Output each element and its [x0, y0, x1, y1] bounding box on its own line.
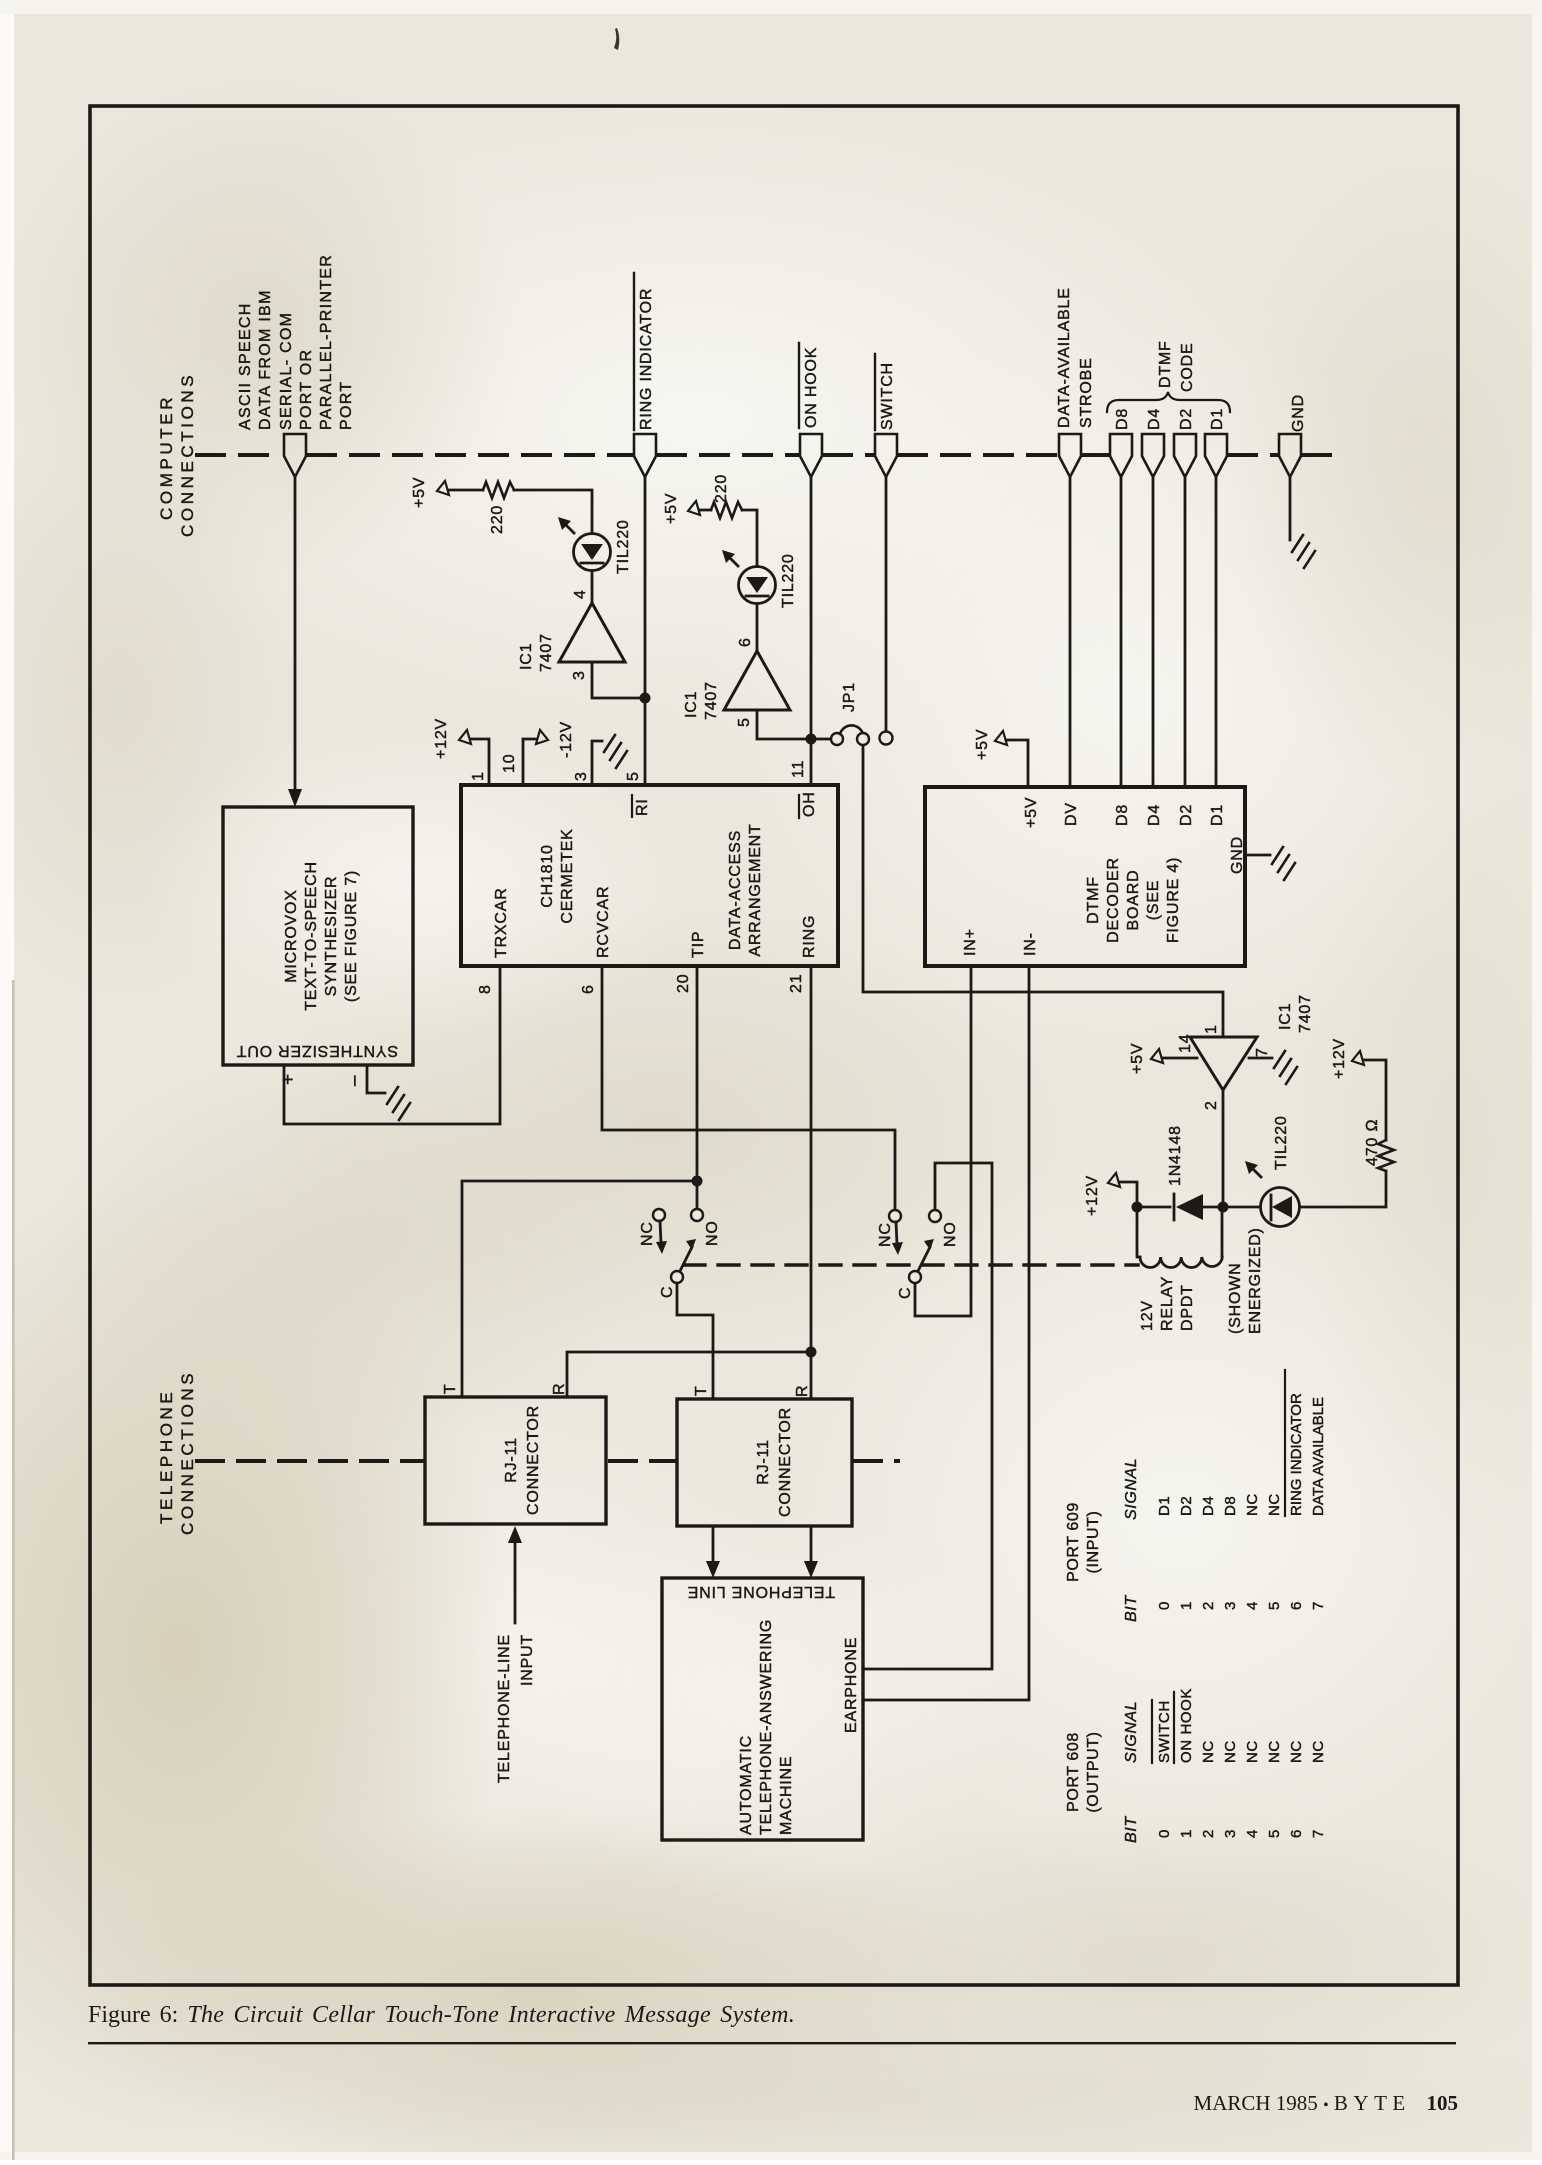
- svg-text:PORT 609: PORT 609: [1065, 1502, 1082, 1582]
- jumper pad on SWITCH net: [880, 732, 893, 745]
- contact NC: [653, 1209, 665, 1221]
- wire: SWITCH net: [885, 477, 888, 731]
- block: automatic telephone-answering machine: [662, 1578, 863, 1840]
- wire D4: [1152, 477, 1155, 787]
- svg-text:12V: 12V: [1139, 1300, 1156, 1331]
- wire buffer input to RI net: [592, 662, 639, 698]
- wire TIP to switch1 NO and RJ11-1 T: [696, 966, 699, 1208]
- svg-text:DTMF: DTMF: [1085, 876, 1102, 924]
- svg-text:5: 5: [1266, 1829, 1283, 1838]
- pole C with lever: [909, 1271, 921, 1283]
- svg-text:220: 220: [489, 505, 506, 534]
- svg-text:8: 8: [477, 984, 494, 994]
- svg-text:T: T: [442, 1383, 459, 1394]
- svg-text:NC: NC: [1244, 1493, 1261, 1516]
- svg-text:CONNECTOR: CONNECTOR: [777, 1407, 794, 1517]
- svg-text:MICROVOX: MICROVOX: [283, 889, 300, 983]
- svg-text:PARALLEL-PRINTER: PARALLEL-PRINTER: [318, 254, 335, 430]
- wire: ASCII connector to synthesizer: [294, 477, 297, 790]
- svg-text:PORT 608: PORT 608: [1065, 1732, 1082, 1812]
- svg-text:FIGURE 4): FIGURE 4): [1165, 857, 1182, 943]
- wire: [756, 604, 759, 651]
- svg-text:C: C: [897, 1287, 914, 1299]
- svg-text:–: –: [344, 1075, 365, 1086]
- svg-text:+12V: +12V: [1084, 1175, 1101, 1216]
- node: D4 connector: [1142, 434, 1164, 477]
- svg-text:D2: D2: [1178, 804, 1195, 826]
- jumper JP1: [817, 725, 869, 745]
- svg-text:OH: OH: [801, 791, 818, 817]
- svg-text:NC: NC: [877, 1222, 894, 1247]
- svg-text:4: 4: [572, 589, 589, 599]
- svg-text:2: 2: [1203, 1100, 1220, 1110]
- svg-text:SIGNAL: SIGNAL: [1123, 1458, 1140, 1520]
- mechanical link dashed line: [684, 1263, 1138, 1266]
- svg-text:3: 3: [571, 670, 588, 680]
- wire IN+ to switch2 common: [915, 966, 971, 1316]
- pin 5 label: [625, 771, 642, 781]
- power +5V: [663, 493, 680, 524]
- node: D8 connector: [1110, 434, 1132, 477]
- synthesizer + output wire to TRXCAR pin 8: [278, 1074, 299, 1085]
- svg-text:IN+: IN+: [962, 928, 979, 956]
- wire: [1137, 1206, 1170, 1209]
- wire RING to RJ11 connectors: [810, 966, 813, 1399]
- svg-text:D4: D4: [1146, 804, 1163, 826]
- rule: [88, 2042, 1456, 2044]
- wire: DV net: [1069, 477, 1072, 787]
- svg-text:JP1: JP1: [841, 682, 858, 712]
- LED TIL220 (data available): [1245, 1161, 1300, 1227]
- synthesizer - output to ground: [344, 1075, 365, 1086]
- label GND: [1290, 394, 1307, 432]
- svg-text:7407: 7407: [538, 633, 555, 672]
- svg-text:T: T: [693, 1385, 710, 1396]
- svg-text:ASCII SPEECH: ASCII SPEECH: [237, 302, 254, 430]
- svg-text:SIGNAL: SIGNAL: [1123, 1701, 1140, 1763]
- ground: [387, 1087, 410, 1120]
- svg-text:(INPUT): (INPUT): [1085, 1511, 1102, 1574]
- label TELEPHONE CONNECTIONS: [157, 1370, 197, 1535]
- svg-text:NC: NC: [639, 1221, 656, 1246]
- svg-text:220: 220: [713, 474, 730, 503]
- svg-text:NC: NC: [1266, 1740, 1283, 1763]
- svg-text:SERIAL- COM: SERIAL- COM: [278, 312, 295, 430]
- svg-text:3: 3: [573, 771, 590, 781]
- ground: [1292, 535, 1315, 568]
- svg-text:+: +: [278, 1074, 299, 1085]
- wire: OH net: [810, 477, 813, 785]
- svg-text:1: 1: [1178, 1829, 1195, 1838]
- wire: [591, 571, 594, 603]
- svg-text:5: 5: [1266, 1601, 1283, 1610]
- svg-text:NC: NC: [1266, 1493, 1283, 1516]
- resistor R2 220: [711, 502, 742, 518]
- svg-text:RI: RI: [634, 798, 651, 816]
- wire: [700, 509, 711, 512]
- wire: RI net: [644, 477, 647, 785]
- svg-text:6: 6: [1288, 1601, 1305, 1610]
- svg-text:C: C: [659, 1286, 676, 1298]
- svg-text:+5V: +5V: [411, 477, 428, 508]
- svg-text:(SEE FIGURE 7): (SEE FIGURE 7): [343, 870, 360, 1002]
- svg-text:BIT: BIT: [1123, 1595, 1140, 1622]
- label ON HOOK: [803, 347, 820, 428]
- svg-text:BIT: BIT: [1123, 1816, 1140, 1843]
- svg-text:RCVCAR: RCVCAR: [595, 886, 612, 958]
- wire D1: [1215, 477, 1218, 787]
- svg-text:PORT: PORT: [338, 381, 355, 430]
- svg-text:3: 3: [1222, 1601, 1239, 1610]
- label ASCII SPEECH DATA: [237, 254, 355, 430]
- svg-text:ON HOOK: ON HOOK: [1178, 1688, 1195, 1763]
- pin 3 ground: [573, 771, 590, 781]
- svg-text:1: 1: [1203, 1024, 1220, 1034]
- svg-text:+12V: +12V: [433, 718, 450, 759]
- svg-text:+5V: +5V: [1023, 797, 1040, 828]
- node: RING INDICATOR connector: [634, 434, 656, 477]
- block: RJ-11 connector (line): [425, 1397, 606, 1524]
- resistor R1 220: [483, 482, 514, 498]
- svg-text:ON HOOK: ON HOOK: [803, 347, 820, 428]
- wire: [1223, 1206, 1259, 1209]
- label SWITCH: [879, 362, 896, 430]
- power +5V: [411, 477, 428, 508]
- svg-text:CONNECTIONS: CONNECTIONS: [178, 1370, 197, 1535]
- pin 21 label: [788, 974, 805, 993]
- svg-text:TELEPHONE LINE: TELEPHONE LINE: [687, 1583, 835, 1600]
- svg-text:6: 6: [580, 984, 597, 994]
- svg-text:4: 4: [1244, 1601, 1261, 1610]
- telephone-line input arrow: [514, 1540, 517, 1623]
- computer-connections dashed line: [197, 453, 1341, 457]
- node: SWITCH connector: [875, 434, 897, 477]
- svg-text:2: 2: [1200, 1829, 1217, 1838]
- block: RJ-11 connector (answering machine): [677, 1399, 852, 1526]
- svg-text:ARRANGEMENT: ARRANGEMENT: [747, 823, 764, 956]
- ground: [1274, 1051, 1297, 1084]
- svg-text:21: 21: [788, 974, 805, 993]
- pole C with lever: [671, 1271, 683, 1283]
- svg-text:4: 4: [1244, 1829, 1261, 1838]
- svg-text:5: 5: [736, 717, 753, 727]
- svg-text:6: 6: [737, 637, 754, 647]
- pin 6 label: [580, 984, 597, 994]
- label D8: [1114, 408, 1131, 430]
- wire D8: [1120, 477, 1123, 787]
- svg-text:NC: NC: [1244, 1740, 1261, 1763]
- svg-text:TIL220: TIL220: [615, 519, 632, 574]
- wire GND to chassis: [1289, 477, 1292, 540]
- wire IN- to answering machine earphone: [863, 966, 1029, 1700]
- block: CH1810 data-access arrangement: [461, 785, 838, 966]
- svg-text:2: 2: [1200, 1601, 1217, 1610]
- svg-text:STROBE: STROBE: [1078, 357, 1095, 428]
- svg-text:RELAY: RELAY: [1159, 1276, 1176, 1331]
- label DATA-AVAILABLE STROBE: [1056, 287, 1095, 428]
- wire D2: [1184, 477, 1187, 787]
- svg-text:Figure 6: The Circuit Cellar T: Figure 6: The Circuit Cellar Touch-Tone …: [88, 2002, 795, 2028]
- wire GND of DTMF to chassis: [1245, 854, 1270, 857]
- svg-text:(SEE: (SEE: [1145, 880, 1162, 921]
- pin 10 -12V: [501, 721, 575, 773]
- svg-text:RING: RING: [801, 915, 818, 958]
- wire switch2 NO to answering machine earphone: [863, 1163, 992, 1669]
- node: ON HOOK connector: [800, 434, 822, 477]
- svg-text:GND: GND: [1229, 836, 1246, 874]
- svg-text:DECODER: DECODER: [1105, 857, 1122, 943]
- svg-text:SWITCH: SWITCH: [1156, 1700, 1173, 1763]
- diode 1N4148: [1174, 1194, 1223, 1220]
- wire: [742, 510, 757, 566]
- label D2: [1178, 408, 1195, 430]
- svg-text:-12V: -12V: [558, 721, 575, 758]
- svg-text:CERMETEK: CERMETEK: [559, 828, 576, 923]
- LED TIL220 (ring): [558, 517, 611, 571]
- svg-text:5: 5: [625, 771, 642, 781]
- junction: buffer input on RI net: [640, 693, 651, 704]
- power +12V: [1364, 1060, 1386, 1140]
- LED TIL220 (on hook): [722, 550, 776, 604]
- svg-text:CODE: CODE: [1179, 343, 1196, 392]
- svg-text:10: 10: [501, 754, 518, 773]
- svg-text:R: R: [551, 1383, 568, 1395]
- node: DATA-AVAILABLE STROBE connector: [1059, 434, 1081, 477]
- svg-text:6: 6: [1288, 1829, 1305, 1838]
- contact NO: [929, 1210, 941, 1222]
- power +5V into DTMF: [974, 729, 991, 760]
- svg-text:DV: DV: [1063, 802, 1080, 826]
- svg-text:BOARD: BOARD: [1125, 870, 1142, 931]
- svg-text:MACHINE: MACHINE: [778, 1756, 795, 1835]
- svg-text:7: 7: [1254, 1047, 1271, 1057]
- svg-text:NC: NC: [1200, 1740, 1217, 1763]
- block: Microvox text-to-speech synthesizer: [223, 807, 413, 1065]
- svg-text:TIL220: TIL220: [780, 553, 797, 608]
- svg-text:DATA-ACCESS: DATA-ACCESS: [727, 830, 744, 950]
- pin 11 label: [790, 760, 807, 778]
- svg-text:D1: D1: [1156, 1496, 1173, 1516]
- svg-text:TIP: TIP: [690, 931, 707, 958]
- junction: TIP tee: [692, 1176, 703, 1187]
- wire: [1300, 1171, 1386, 1207]
- svg-text:ENERGIZED): ENERGIZED): [1247, 1227, 1264, 1334]
- ground: [1272, 847, 1295, 880]
- power +5V pin 14: [1129, 1043, 1146, 1074]
- svg-text:D1: D1: [1209, 408, 1226, 430]
- node: ASCII speech data connector: [284, 434, 306, 477]
- svg-text:+12V: +12V: [1331, 1038, 1348, 1079]
- svg-text:D8: D8: [1114, 408, 1131, 430]
- svg-text:NO: NO: [704, 1220, 721, 1246]
- svg-text:CONNECTOR: CONNECTOR: [525, 1405, 542, 1515]
- caption: Figure 6: [614, 28, 619, 50]
- svg-text:D2: D2: [1178, 408, 1195, 430]
- svg-text:SYNTHESIZER OUT: SYNTHESIZER OUT: [236, 1042, 398, 1059]
- resistor 470 ohm: [1378, 1140, 1394, 1171]
- svg-text:0: 0: [1156, 1829, 1173, 1838]
- node: relay left junction: [1132, 1202, 1143, 1213]
- svg-text:7: 7: [1310, 1829, 1327, 1838]
- svg-text:TEXT-TO-SPEECH: TEXT-TO-SPEECH: [303, 861, 320, 1011]
- svg-text:DATA AVAILABLE: DATA AVAILABLE: [1310, 1397, 1327, 1516]
- svg-text:GND: GND: [1290, 394, 1307, 432]
- svg-text:20: 20: [675, 974, 692, 993]
- overlines RI / OH: [631, 795, 633, 817]
- label DTMF CODE with brace: [1157, 340, 1196, 392]
- ground: [604, 735, 627, 768]
- pin 8 label: [477, 984, 494, 994]
- buffer IC1 7407 (pins 5-6): [724, 651, 790, 710]
- svg-text:1: 1: [1178, 1601, 1195, 1610]
- svg-text:RJ-11: RJ-11: [755, 1439, 772, 1485]
- svg-text:470 Ω: 470 Ω: [1364, 1119, 1381, 1166]
- svg-text:D2: D2: [1178, 1496, 1195, 1516]
- relay coil 12V DPDT: [1137, 1207, 1222, 1268]
- svg-text:R: R: [794, 1385, 811, 1397]
- wire: [449, 489, 483, 492]
- svg-text:3: 3: [1222, 1829, 1239, 1838]
- svg-text:PORT OR: PORT OR: [298, 349, 315, 430]
- svg-text:D8: D8: [1114, 804, 1131, 826]
- buffer IC1 7407 (pins 1-2): [1190, 1037, 1257, 1090]
- svg-text:IC1: IC1: [1277, 1003, 1294, 1030]
- block: DTMF decoder board: [925, 787, 1245, 966]
- svg-text:+5V: +5V: [663, 493, 680, 524]
- label D1: [1209, 408, 1226, 430]
- svg-text:IC1: IC1: [683, 691, 700, 718]
- node: GND connector: [1279, 434, 1301, 477]
- svg-text:TRXCAR: TRXCAR: [493, 887, 510, 958]
- svg-text:SWITCH: SWITCH: [879, 362, 896, 430]
- contact NC: [889, 1210, 901, 1222]
- svg-text:RING INDICATOR: RING INDICATOR: [1288, 1393, 1305, 1516]
- node: D1 connector: [1205, 434, 1227, 477]
- wire switch1 C to RJ11-2 T: [677, 1283, 713, 1399]
- svg-text:TELEPHONE-LINE: TELEPHONE-LINE: [496, 1634, 513, 1783]
- svg-text:NC: NC: [1310, 1740, 1327, 1763]
- svg-text:1N4148: 1N4148: [1167, 1125, 1184, 1186]
- svg-text:IN-: IN-: [1022, 932, 1039, 956]
- border frame: [90, 106, 1458, 1985]
- ground pin 7: [1249, 1057, 1272, 1060]
- wire buffer output to OH net: [757, 710, 805, 739]
- svg-text:D4: D4: [1146, 408, 1163, 430]
- svg-text:7: 7: [1310, 1601, 1327, 1610]
- svg-text:7407: 7407: [703, 681, 720, 720]
- svg-text:AUTOMATIC: AUTOMATIC: [738, 1735, 755, 1835]
- svg-text:D4: D4: [1200, 1496, 1217, 1516]
- svg-text:NC: NC: [1222, 1740, 1239, 1763]
- wires RJ11-2 to answering machine with arrows: [712, 1526, 715, 1562]
- label RING INDICATOR: [638, 288, 655, 430]
- svg-text:DATA-AVAILABLE: DATA-AVAILABLE: [1056, 287, 1073, 428]
- svg-text:DTMF: DTMF: [1157, 340, 1174, 388]
- svg-text:INPUT: INPUT: [519, 1634, 536, 1686]
- wire RCVCAR to switch2 NC: [602, 966, 895, 1209]
- node: relay right junction: [1218, 1202, 1229, 1213]
- svg-text:TELEPHONE: TELEPHONE: [157, 1389, 176, 1524]
- svg-text:TIL220: TIL220: [1273, 1115, 1290, 1170]
- svg-text:D1: D1: [1209, 804, 1226, 826]
- svg-text:RING INDICATOR: RING INDICATOR: [638, 288, 655, 430]
- buffer IC1 7407 (pins 3-4): [559, 603, 625, 662]
- svg-text:14: 14: [1177, 1034, 1194, 1053]
- svg-text:IC1: IC1: [518, 643, 535, 670]
- wire: [514, 490, 592, 533]
- junction: buffer output on OH net: [806, 734, 817, 745]
- node: D2 connector: [1174, 434, 1196, 477]
- svg-text:DPDT: DPDT: [1179, 1284, 1196, 1331]
- svg-text:CONNECTIONS: CONNECTIONS: [178, 372, 197, 537]
- power +12V: [1084, 1175, 1101, 1216]
- junction: RING tee: [806, 1347, 817, 1358]
- svg-text:11: 11: [790, 760, 807, 778]
- svg-text:NC: NC: [1288, 1740, 1305, 1763]
- svg-text:(SHOWN: (SHOWN: [1227, 1263, 1244, 1334]
- svg-text:(OUTPUT): (OUTPUT): [1085, 1731, 1102, 1812]
- label D4: [1146, 408, 1163, 430]
- svg-text:NO: NO: [942, 1221, 959, 1247]
- svg-text:D8: D8: [1222, 1496, 1239, 1516]
- svg-text:COMPUTER: COMPUTER: [157, 394, 176, 520]
- contact NO: [691, 1209, 703, 1221]
- footer: [1194, 2091, 1458, 2115]
- svg-text:+5V: +5V: [1129, 1043, 1146, 1074]
- pin 1 +12V: [433, 718, 487, 781]
- svg-text:1: 1: [470, 771, 487, 781]
- label COMPUTER CONNECTIONS: [157, 372, 197, 537]
- wire buffer output to relay: [1222, 1090, 1225, 1207]
- svg-text:+5V: +5V: [974, 729, 991, 760]
- svg-text:7407: 7407: [1297, 994, 1314, 1033]
- svg-text:CH1810: CH1810: [539, 844, 556, 908]
- pin 20 label: [675, 974, 692, 993]
- svg-text:0: 0: [1156, 1601, 1173, 1610]
- svg-text:RJ-11: RJ-11: [503, 1437, 520, 1483]
- svg-text:EARPHONE: EARPHONE: [843, 1637, 860, 1733]
- svg-text:SYNTHESIZER: SYNTHESIZER: [323, 876, 340, 997]
- svg-text:DATA FROM IBM: DATA FROM IBM: [257, 289, 274, 430]
- svg-text:TELEPHONE-ANSWERING: TELEPHONE-ANSWERING: [758, 1619, 775, 1835]
- wire JP1 to relay buffer: [863, 746, 1223, 1037]
